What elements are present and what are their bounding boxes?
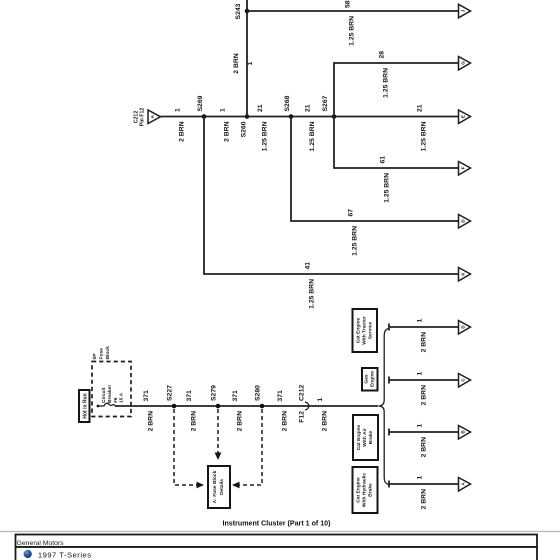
wire: Hot in Run feed 2 BRN 371 bus (115, 405, 378, 407)
connector triangle A (from C212) (148, 110, 161, 124)
svg-text:E: E (461, 115, 466, 118)
svg-text:1: 1 (417, 319, 424, 323)
wire label 1.25 BRN 41 (305, 262, 316, 309)
wire label 1.25 BRN 61 (380, 156, 391, 203)
svg-text:58: 58 (345, 0, 352, 8)
node A: Fuse Block Details (208, 466, 230, 508)
svg-text:Fuse: Fuse (99, 348, 105, 360)
svg-text:1.25 BRN: 1.25 BRN (349, 16, 356, 46)
svg-text:1.25 BRN: 1.25 BRN (384, 173, 391, 203)
svg-text:21: 21 (257, 104, 264, 112)
svg-text:S268: S268 (284, 95, 291, 111)
node Hot in Run (79, 390, 90, 422)
connector triangle E (459, 110, 471, 124)
svg-text:Cat Engine: Cat Engine (356, 424, 362, 450)
I/P Fuse Block label (92, 346, 111, 360)
tree row 1997 T-Series (16, 547, 538, 560)
wire label 1.25 BRN 28 (379, 51, 390, 98)
splice S227 (167, 385, 177, 408)
svg-text:General Motors: General Motors (17, 540, 64, 547)
wire label 2 BRN 371 (breaker to S227) (143, 390, 155, 431)
option Cat Engine With Tractor Service (353, 309, 378, 352)
svg-text:2 BRN: 2 BRN (148, 411, 155, 431)
svg-text:With Tractor: With Tractor (362, 316, 368, 345)
svg-text:2 BRN: 2 BRN (421, 332, 428, 352)
wire label 1.25 BRN 21 (S267 to E) (417, 104, 428, 151)
splice S279 (211, 385, 221, 408)
wire: branch to connector A (389, 481, 459, 488)
connector triangle D (options) (459, 321, 471, 335)
dashed reference: S280 to fuse block details (232, 409, 262, 488)
svg-text:21: 21 (305, 104, 312, 112)
svg-text:S269: S269 (197, 95, 204, 111)
svg-text:Details: Details (219, 479, 225, 495)
svg-text:Brake: Brake (368, 430, 374, 444)
svg-text:J: J (461, 9, 466, 12)
svg-text:1.25 BRN: 1.25 BRN (309, 121, 316, 151)
dashed reference: S227 to fuse block details (174, 409, 204, 488)
wire label 2 BRN 1 (branch D) (417, 319, 428, 353)
svg-text:2 BRN: 2 BRN (322, 411, 329, 431)
svg-text:Gas: Gas (364, 374, 370, 384)
splice S260 (241, 114, 250, 137)
splice S269 (197, 95, 206, 118)
svg-text:#6: #6 (113, 397, 119, 403)
svg-text:1: 1 (317, 398, 324, 402)
connector triangle A (options) (459, 478, 471, 492)
svg-text:1.25 BRN: 1.25 BRN (421, 121, 428, 151)
svg-text:371: 371 (277, 390, 284, 402)
svg-text:1: 1 (417, 372, 424, 376)
wire: branch to connector C (389, 377, 459, 384)
circuit breaker symbol (97, 403, 115, 407)
wire label 2 BRN 1 (A to S269) (175, 108, 186, 142)
wire label 1.25 BRN 21 (S260 to S268) (257, 104, 269, 151)
tree row General Motors (16, 535, 538, 548)
wire label 2 BRN 1 (riser) (233, 53, 254, 73)
wire label 2 BRN 371 (S227 to S279) (186, 390, 198, 431)
wire: S243 to connector J (247, 10, 459, 12)
svg-text:1.25 BRN: 1.25 BRN (383, 68, 390, 98)
SECTION: footer UI (0, 520, 560, 560)
wire label 1.25 BRN 67 (348, 209, 359, 256)
svg-text:With Air: With Air (362, 428, 368, 447)
svg-text:G: G (461, 61, 466, 65)
wire label 2 BRN 1 (branch A) (417, 476, 428, 510)
wire label 2 BRN 1 (S269 to S260) (220, 108, 231, 142)
wire: S268 down branch to connector D (291, 117, 459, 222)
wire: S267 down branch to connector F (334, 117, 459, 169)
svg-text:Hot in Run: Hot in Run (83, 393, 89, 418)
svg-text:Instrument Cluster (Part 1 of: Instrument Cluster (Part 1 of 10) (222, 520, 331, 528)
svg-text:15 A: 15 A (119, 392, 125, 403)
svg-text:S260: S260 (241, 121, 248, 137)
svg-text:2 BRN: 2 BRN (421, 437, 428, 457)
options brace (379, 329, 389, 485)
svg-text:1997 T-Series: 1997 T-Series (38, 551, 92, 560)
svg-text:Engine: Engine (370, 371, 376, 388)
svg-text:S243: S243 (235, 3, 242, 19)
connector triangle G (459, 57, 471, 71)
wire label 2 BRN 371 (S280 to C212) (277, 390, 289, 431)
option Cat Engine With Air Brake (353, 415, 378, 460)
wire label 2 BRN 371 (S279 to S280) (232, 390, 244, 431)
svg-text:Breaker: Breaker (107, 385, 113, 403)
svg-text:1: 1 (175, 108, 182, 112)
svg-text:Cat Engine: Cat Engine (356, 317, 362, 343)
svg-text:F: F (461, 166, 466, 169)
svg-text:371: 371 (143, 390, 150, 402)
wire label 1.25 BRN 21 (S268 to S267) (305, 104, 317, 151)
svg-text:1.25 BRN: 1.25 BRN (309, 279, 316, 309)
connector triangle K (459, 268, 471, 282)
svg-text:Cat Engine: Cat Engine (356, 477, 362, 503)
svg-text:67: 67 (348, 209, 355, 217)
svg-text:2 BRN: 2 BRN (282, 411, 289, 431)
svg-text:1.25 BRN: 1.25 BRN (262, 121, 269, 151)
option Cat Engine With Hydraulic Brake (353, 467, 378, 513)
circuit breaker #6 15 A label (101, 385, 125, 403)
svg-text:1: 1 (220, 108, 227, 112)
icon blue sphere (24, 550, 32, 558)
svg-text:S267: S267 (322, 95, 329, 111)
svg-text:1: 1 (247, 61, 254, 65)
svg-text:41: 41 (305, 262, 312, 270)
svg-text:2 BRN: 2 BRN (179, 121, 186, 141)
SECTION: top schematic (134, 0, 471, 309)
svg-text:2 BRN: 2 BRN (421, 489, 428, 509)
splice S267 (322, 95, 336, 118)
connector triangle D (top section) (459, 215, 471, 229)
svg-text:S227: S227 (167, 385, 174, 401)
SECTION: bottom schematic (79, 309, 471, 513)
svg-text:A: Fuse Block: A: Fuse Block (212, 470, 218, 503)
wire: S267 up branch to connector G (334, 63, 459, 117)
svg-text:2 BRN: 2 BRN (421, 385, 428, 405)
option Gas Engine (362, 368, 378, 391)
wire label 2 BRN 1 (branch C) (417, 372, 428, 406)
wire: S269 down branch to connector K (204, 117, 459, 275)
svg-text:Block: Block (105, 346, 111, 360)
svg-text:Circuit: Circuit (101, 387, 107, 403)
wire: vertical riser S260 up through S243 to page edge (246, 0, 248, 117)
connector triangle B (459, 426, 471, 440)
wire: main horizontal 2 BRN / 1.25 BRN bus (161, 116, 459, 118)
svg-text:28: 28 (379, 51, 386, 59)
splice S280 (255, 385, 265, 408)
svg-text:2 BRN: 2 BRN (237, 411, 244, 431)
svg-text:Service: Service (368, 322, 374, 340)
splice S268 (284, 95, 293, 118)
connector triangle F (459, 162, 471, 176)
svg-text:C212: C212 (299, 385, 306, 401)
wire label 2 BRN 1 (branch B) (417, 424, 428, 458)
svg-text:371: 371 (232, 390, 239, 402)
connector triangle J (459, 4, 471, 17)
svg-text:I/P: I/P (92, 353, 98, 360)
pane separator rule (0, 531, 560, 533)
svg-text:2 BRN: 2 BRN (233, 53, 240, 73)
svg-text:1: 1 (417, 476, 424, 480)
svg-text:F12: F12 (299, 411, 306, 423)
svg-text:S280: S280 (255, 385, 262, 401)
connector triangle C (459, 374, 471, 388)
splice S243 (235, 3, 249, 19)
I/P fuse block (dashed box) (92, 362, 131, 417)
connector C212 Pin F12 label (134, 108, 146, 127)
wire: branch to connector B (389, 429, 459, 436)
dashed reference: S279 to fuse block details (215, 409, 222, 460)
svg-text:61: 61 (380, 156, 387, 164)
wire: branch to connector D (389, 324, 459, 331)
svg-text:2 BRN: 2 BRN (191, 411, 198, 431)
svg-text:371: 371 (186, 390, 193, 402)
wire label 1.25 BRN 58 (345, 0, 356, 46)
wire label 2 BRN 1 (C212 to brace) (317, 398, 329, 432)
svg-text:2 BRN: 2 BRN (224, 121, 231, 141)
svg-text:S279: S279 (211, 385, 218, 401)
svg-text:1: 1 (417, 424, 424, 428)
svg-text:1.25 BRN: 1.25 BRN (352, 226, 359, 256)
svg-text:Pin F12: Pin F12 (140, 108, 146, 127)
connector C212 pin F12 in-line marker (299, 385, 309, 423)
svg-text:21: 21 (417, 104, 424, 112)
svg-text:With Hydraulic: With Hydraulic (362, 473, 368, 507)
svg-text:Brake: Brake (368, 483, 374, 497)
